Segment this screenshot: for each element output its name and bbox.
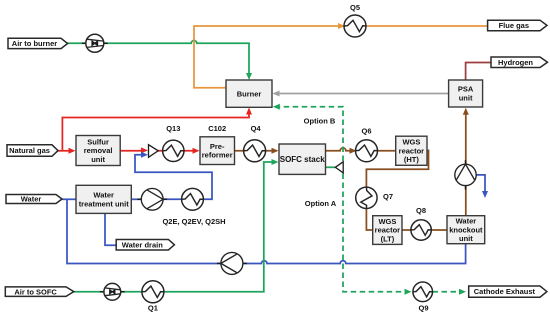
svg-text:Sulfur: Sulfur [87, 137, 109, 146]
svg-text:Option B: Option B [304, 116, 336, 125]
arrow steam into mixer (blue) [141, 152, 148, 158]
svg-text:Air to burner: Air to burner [12, 39, 57, 48]
unit: WGS reactor (HT) [396, 136, 427, 165]
arrow into Q5 (orange) [338, 23, 345, 29]
heat exchanger Q5 [344, 15, 366, 37]
svg-text:Q6: Q6 [361, 127, 371, 136]
wire: brown line Q6 to WGS reactor HT [378, 150, 396, 152]
svg-text:Hydrogen: Hydrogen [498, 58, 533, 67]
wire: blue water treatment to water drain flag [105, 213, 117, 245]
svg-text:Q4: Q4 [251, 124, 262, 133]
svg-text:Water: Water [456, 217, 477, 226]
flag: Natural gas [7, 145, 58, 157]
arrow into pre-reformer (red) [193, 148, 200, 154]
wire: brown line WGS LT to Q8 to water knockout unit [402, 229, 447, 231]
svg-text:Water drain: Water drain [122, 240, 163, 249]
svg-text:reactor: reactor [375, 226, 401, 235]
arrow into burner top (green) [246, 73, 252, 80]
svg-text:unit: unit [459, 94, 473, 103]
wire: blue recycled water knockout->pump->junction (hops over green and dashed) [67, 199, 466, 263]
flag: Air to burner [8, 38, 68, 48]
wire: natural gas red line flag->sulfur removal unit [58, 150, 72, 152]
wire: gray line PSA unit to burner [276, 93, 449, 95]
compressor C1 to PSA [455, 160, 476, 189]
unit: Water treatment unit [76, 185, 131, 213]
label Q5 [350, 3, 360, 12]
arrow option B into burner (green dashed) [273, 104, 280, 110]
svg-text:Q8: Q8 [416, 206, 426, 215]
svg-text:Air to SOFC: Air to SOFC [14, 287, 57, 296]
wire: red branch natural gas to burner bottom [62, 110, 249, 151]
unit: Water knockout unit [447, 216, 485, 244]
flag: Hydrogen [491, 57, 548, 68]
svg-text:PSA: PSA [458, 85, 474, 94]
wire: brown line pre-reformer to Q4 to SOFC stack [235, 150, 276, 152]
arrow into mixer (red) [141, 147, 148, 153]
wire: brown line WGS HT to Q7 to WGS LT [366, 150, 428, 188]
wire: green air-to-SOFC line flag->fan->Q1->SOFC cathode inlet [74, 291, 104, 293]
wire: blue water line flag to water treatment unit [62, 198, 76, 200]
svg-text:Q13: Q13 [166, 124, 180, 133]
arrow before Q9 (green dashed) [405, 289, 412, 295]
unit: Pre-reformer C102 [200, 137, 235, 165]
arrow into sulfur removal unit (red) [69, 148, 76, 154]
svg-text:reactor: reactor [399, 146, 425, 155]
svg-text:(HT): (HT) [404, 155, 419, 164]
flag: Water drain [116, 240, 174, 251]
wire: air-to-burner green line from flag to fan to burner (hop over orange) [58, 40, 249, 77]
svg-text:Water: Water [21, 195, 42, 204]
svg-text:reformer: reformer [202, 151, 233, 160]
svg-text:treatment unit: treatment unit [79, 199, 130, 208]
svg-text:Option A: Option A [305, 199, 337, 208]
heat exchanger Q4 [244, 140, 266, 162]
label Q2E, Q2EV, Q2SH [162, 217, 225, 226]
svg-text:Q1: Q1 [148, 304, 158, 313]
arrow into burner bottom (red) [246, 108, 252, 115]
svg-text:C102: C102 [208, 124, 226, 133]
unit: Sulfur removal unit [76, 136, 120, 166]
svg-text:Natural gas: Natural gas [9, 146, 50, 155]
svg-text:unit: unit [91, 155, 105, 164]
label Q1 [148, 304, 158, 313]
heat exchanger Q13 [163, 140, 184, 161]
wire: green cathode outlet SOFC to splitter valve [326, 166, 336, 168]
wire: dashed green Option A cathode exhaust line down and right to Q9 [343, 174, 406, 292]
wire: brown line SOFC stack to Q6 (hop over dashed) [326, 148, 353, 151]
label Q8 [416, 206, 426, 215]
svg-text:Q5: Q5 [350, 3, 360, 12]
wire: flue gas orange line burner->Q5->flue gas flag [194, 26, 344, 88]
arrow into burner right (gray) [273, 91, 280, 97]
wire: dashed green Q9 to cathode exhaust flag [433, 291, 460, 293]
svg-text:Q7: Q7 [383, 192, 393, 201]
svg-text:Cathode Exhaust: Cathode Exhaust [474, 287, 536, 296]
svg-text:Water: Water [93, 191, 114, 200]
svg-text:knockout: knockout [449, 225, 483, 234]
label Q13 [166, 124, 180, 133]
wire: brown line Q7 outlet down to WGS LT inlet [366, 208, 372, 230]
label Option A [305, 199, 337, 208]
label Q6 [361, 127, 371, 136]
flag: Water [6, 195, 62, 204]
wire: blue steam line water treatment->pump->Q2 exchangers->mixer [131, 198, 141, 200]
wire: maroon hydrogen line PSA to hydrogen flag [466, 63, 492, 81]
unit: Burner [226, 80, 272, 107]
wire: red line mixer to Q13 to pre-reformer [158, 150, 196, 152]
fan/compressor K1 on air-to-burner line [82, 34, 108, 52]
heat exchanger Q8 [411, 220, 431, 240]
mixer valve fuel+steam [149, 145, 159, 158]
label C102 [208, 124, 226, 133]
pump P1 water treatment outlet [137, 188, 167, 210]
arrow into cathode exhaust flag (green dashed) [459, 289, 466, 295]
heat exchanger Q1 [142, 281, 164, 303]
heat exchanger Q7 [356, 187, 377, 208]
svg-text:Flue gas: Flue gas [499, 21, 529, 30]
svg-text:unit: unit [459, 234, 473, 243]
arrow condensate down (blue) [482, 191, 488, 198]
pump P2 recycled water [217, 252, 247, 274]
heat exchanger Q6 [356, 140, 378, 162]
label Q7 [383, 192, 393, 201]
heat exchanger Q9 [413, 282, 433, 302]
svg-text:(LT): (LT) [381, 235, 395, 244]
svg-text:removal: removal [84, 146, 113, 155]
svg-text:Q2E, Q2EV, Q2SH: Q2E, Q2EV, Q2SH [162, 217, 225, 226]
unit: WGS reactor (LT) [373, 216, 402, 245]
arrow into SOFC stack (brown) [272, 148, 279, 154]
wire: dashed green Option B cathode recycle to burner [277, 107, 343, 161]
unit: SOFC stack [279, 144, 326, 174]
svg-text:WGS: WGS [378, 217, 396, 226]
flag: Cathode Exhaust [469, 286, 547, 297]
arrow into PSA bottom (brown) [463, 108, 469, 115]
svg-text:Burner: Burner [237, 89, 262, 98]
fan/compressor K2 on air-to-SOFC line [100, 283, 125, 300]
wire: red line sulfur removal unit to mixer [120, 150, 144, 152]
svg-text:Pre-: Pre- [210, 142, 225, 151]
label Q9 [418, 304, 428, 313]
svg-text:SOFC stack: SOFC stack [280, 155, 325, 164]
arrow into SOFC cathode inlet (green) [272, 159, 279, 165]
heat exchanger Q2E/Q2EV/Q2SH [182, 188, 204, 210]
cathode outlet splitter valve [335, 162, 343, 173]
wire: brown line water knockout top through compressor to PSA unit [465, 111, 467, 216]
unit: PSA unit [449, 80, 483, 107]
label Q4 [251, 124, 262, 133]
arrow before Q6 (brown) [350, 148, 357, 154]
svg-text:Q9: Q9 [418, 304, 428, 313]
label Option B [304, 116, 336, 125]
flag: Flue gas [488, 20, 547, 31]
flag: Air to SOFC [5, 287, 74, 297]
wire: orange line Q5 to flue gas flag [366, 25, 489, 27]
svg-text:WGS: WGS [402, 138, 420, 147]
wire: blue condensate arrow from compressor [476, 175, 485, 192]
